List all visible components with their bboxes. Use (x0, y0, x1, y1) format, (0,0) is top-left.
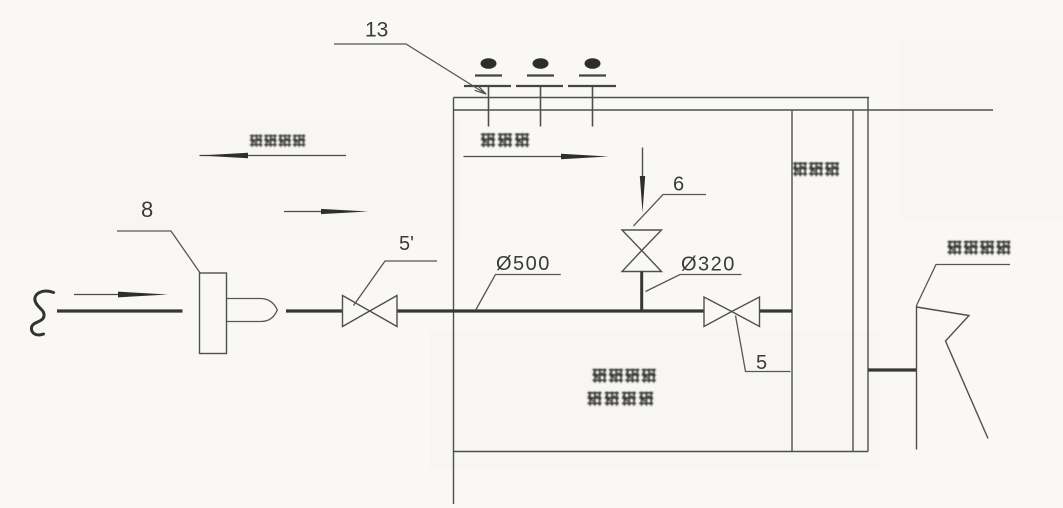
fan unit 8 body (200, 273, 227, 354)
node: blast valve label (4 CJK chars) (948, 241, 1011, 255)
down arrow above valve 6 (640, 176, 645, 213)
valve 5 (bowtie symbol) (704, 297, 760, 327)
svg-text:6: 6 (673, 174, 684, 196)
wire: valve 6 drop pipe (640, 272, 643, 312)
blast valve door symbol (917, 306, 989, 450)
wire: intake pipe segment left of fan 8 (57, 309, 183, 312)
flow arrow above intake pipe pointing right (74, 292, 168, 298)
valve 5' (bowtie symbol) (343, 296, 398, 327)
node: diffusion chamber label (3 CJK chars) (793, 162, 839, 176)
leader for label 5' (354, 261, 438, 306)
wire: pipe from valve 5' through room to valve 5 (397, 309, 704, 312)
fan unit 8 outlet bell (227, 299, 277, 322)
svg-text:8: 8 (141, 197, 153, 222)
exhaust vent 1 (item 13) (464, 58, 511, 126)
wire: pipe from diffusion chamber to blast valve (868, 368, 916, 371)
wire: pipe from fan outlet to valve 5' (286, 309, 343, 312)
node: clean zone label (4 CJK chars) (250, 135, 305, 147)
svg-text:Ø320: Ø320 (681, 254, 736, 276)
wall: room left wall (453, 98, 455, 505)
node: room label line 2 (4 CJK chars) (588, 392, 654, 406)
pipe break squiggle (31, 291, 53, 335)
exhaust vent 3 (item 13) (568, 58, 616, 126)
wire: pipe from valve 5 to diffusion chamber wall (760, 309, 793, 312)
wall: diffusion chamber left wall (791, 110, 793, 452)
leader for label 8 (117, 231, 201, 274)
leader for label 5 (736, 316, 791, 372)
stem above valve 6 (642, 148, 644, 178)
wire: ceiling line 2 (454, 109, 994, 111)
flow arrow middle pointing right (284, 209, 368, 214)
node: contaminated zone label (3 CJK chars) (481, 133, 529, 147)
leader for blast valve label (917, 265, 1011, 306)
svg-text:Ø500: Ø500 (496, 253, 551, 275)
leader for diameter 500 (476, 275, 561, 311)
leader for label 13 (334, 44, 486, 94)
flow arrow pointing right (contaminated zone) (464, 154, 609, 160)
svg-text:5': 5' (399, 233, 414, 255)
wire: ceiling line 1 (454, 97, 870, 99)
wall: diffusion chamber right wall outer line (867, 98, 869, 452)
valve 6 (vertical bowtie symbol) (622, 230, 662, 272)
wire: floor line (454, 451, 869, 453)
svg-text:5: 5 (756, 352, 767, 374)
wall: diffusion chamber right wall inner line (852, 110, 854, 452)
svg-text:13: 13 (365, 19, 388, 42)
leader for label 6 (634, 195, 707, 227)
exhaust vent 2 (item 13) (516, 58, 563, 126)
flow arrow pointing left (clean zone) (200, 153, 347, 159)
node: room label line 1 (4 CJK chars) (593, 369, 656, 383)
leader for diameter 320 (646, 275, 742, 292)
